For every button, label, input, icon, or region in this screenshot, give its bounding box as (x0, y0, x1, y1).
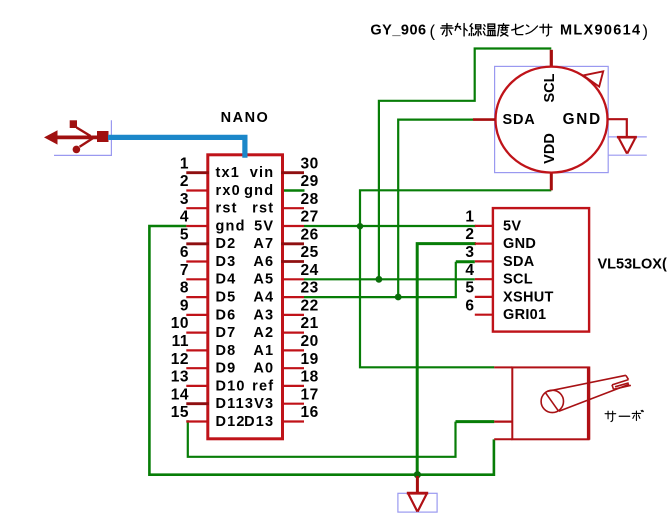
svg-text:D7: D7 (216, 325, 237, 341)
svg-text:rx0: rx0 (216, 183, 241, 199)
svg-text:): ) (643, 23, 649, 41)
svg-text:18: 18 (301, 369, 319, 386)
svg-text:3: 3 (465, 244, 474, 261)
svg-text:4: 4 (465, 262, 474, 279)
svg-text:A6: A6 (253, 254, 274, 270)
svg-text:12: 12 (171, 351, 189, 368)
svg-text:VL53LOX(: VL53LOX( (598, 256, 667, 272)
svg-text:30: 30 (301, 155, 319, 172)
svg-text:NANO: NANO (221, 110, 270, 126)
svg-text:SCL: SCL (542, 73, 558, 102)
svg-text:GND: GND (563, 111, 602, 128)
svg-text:4: 4 (180, 209, 189, 226)
svg-text:rst: rst (252, 201, 274, 217)
svg-text:D2: D2 (216, 236, 237, 252)
svg-text:23: 23 (301, 280, 319, 297)
svg-text:VDD: VDD (542, 133, 558, 164)
svg-text:A3: A3 (253, 307, 274, 323)
svg-text:19: 19 (301, 351, 319, 368)
svg-text:1: 1 (180, 155, 189, 172)
svg-text:6: 6 (465, 297, 474, 314)
svg-text:D8: D8 (216, 343, 237, 359)
svg-text:GND: GND (503, 236, 536, 252)
svg-text:D10: D10 (216, 378, 246, 394)
svg-text:D9: D9 (216, 361, 237, 377)
svg-text:GY_906: GY_906 (370, 23, 426, 39)
svg-text:5: 5 (465, 280, 474, 297)
svg-text:6: 6 (180, 244, 189, 261)
svg-text:7: 7 (180, 262, 189, 279)
svg-text:9: 9 (180, 298, 189, 315)
svg-text:A0: A0 (253, 361, 274, 377)
svg-text:D6: D6 (216, 307, 237, 323)
svg-text:A1: A1 (253, 343, 274, 359)
svg-text:26: 26 (301, 226, 319, 243)
svg-text:11: 11 (172, 333, 189, 350)
svg-text:ref: ref (252, 378, 274, 394)
svg-text:24: 24 (301, 262, 319, 279)
svg-text:D5: D5 (216, 290, 237, 306)
svg-text:SCL: SCL (503, 272, 533, 288)
svg-text:3: 3 (180, 191, 189, 208)
svg-text:16: 16 (301, 404, 319, 421)
svg-text:vin: vin (250, 165, 275, 181)
svg-text:A2: A2 (253, 325, 274, 341)
svg-text:D3: D3 (216, 254, 237, 270)
svg-text:3V3: 3V3 (245, 396, 274, 412)
svg-text:14: 14 (171, 386, 189, 403)
svg-text:29: 29 (301, 173, 319, 190)
svg-text:5: 5 (180, 226, 189, 243)
svg-text:1: 1 (465, 209, 474, 226)
svg-text:2: 2 (465, 226, 474, 243)
svg-text:15: 15 (171, 404, 189, 421)
svg-text:5V: 5V (503, 218, 521, 234)
svg-text:27: 27 (301, 209, 319, 226)
svg-text:GRI01: GRI01 (503, 307, 546, 323)
svg-text:28: 28 (301, 191, 319, 208)
svg-text:25: 25 (301, 244, 319, 261)
svg-text:D4: D4 (216, 272, 237, 288)
svg-text:20: 20 (301, 333, 319, 350)
svg-text:(: ( (430, 23, 436, 41)
svg-text:D12: D12 (216, 414, 246, 430)
svg-text:22: 22 (301, 298, 319, 315)
svg-text:21: 21 (301, 315, 319, 332)
svg-text:5V: 5V (254, 218, 274, 234)
svg-text:rst: rst (216, 201, 238, 217)
svg-text:SDA: SDA (503, 254, 535, 270)
svg-text:2: 2 (180, 173, 189, 190)
svg-text:A5: A5 (253, 272, 274, 288)
svg-text:tx1: tx1 (216, 165, 241, 181)
svg-text:SDA: SDA (503, 112, 536, 128)
svg-text:XSHUT: XSHUT (503, 289, 554, 305)
svg-text:A4: A4 (253, 290, 274, 306)
svg-text:D13: D13 (244, 414, 274, 430)
svg-text:D11: D11 (216, 396, 245, 412)
svg-text:gnd: gnd (216, 218, 246, 234)
svg-text:8: 8 (180, 280, 189, 297)
svg-text:gnd: gnd (244, 183, 274, 199)
svg-text:A7: A7 (253, 236, 274, 252)
svg-text:10: 10 (171, 315, 189, 332)
svg-text:13: 13 (171, 369, 189, 386)
svg-text:MLX90614: MLX90614 (560, 23, 641, 39)
svg-text:17: 17 (301, 386, 319, 403)
